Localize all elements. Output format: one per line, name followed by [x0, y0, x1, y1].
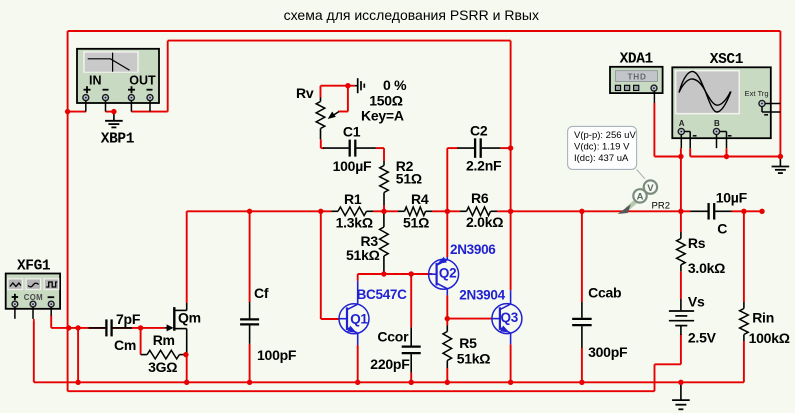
svg-text:300pF: 300pF [588, 344, 628, 360]
svg-text:Ccor: Ccor [377, 328, 409, 344]
svg-text:R6: R6 [471, 190, 489, 206]
svg-text:Key=A: Key=A [361, 107, 404, 123]
svg-text:1.3kΩ: 1.3kΩ [336, 215, 373, 231]
svg-text:2N3904: 2N3904 [459, 288, 505, 303]
svg-text:Rs: Rs [688, 235, 706, 251]
svg-text:100pF: 100pF [257, 347, 297, 363]
svg-text:2.2nF: 2.2nF [466, 157, 502, 173]
svg-text:Q3: Q3 [501, 310, 519, 325]
svg-text:51Ω: 51Ω [403, 214, 429, 230]
svg-text:51Ω: 51Ω [396, 171, 422, 187]
svg-text:C1: C1 [343, 124, 361, 140]
svg-text:схема для исследования PSRR и: схема для исследования PSRR и Rвых [284, 7, 539, 23]
svg-text:Cf: Cf [254, 285, 269, 301]
svg-text:R4: R4 [411, 191, 429, 207]
svg-text:Rv: Rv [296, 85, 314, 101]
svg-text:XFG1: XFG1 [17, 258, 51, 274]
svg-text:3GΩ: 3GΩ [148, 359, 177, 375]
svg-text:R5: R5 [459, 335, 477, 351]
svg-text:0 %: 0 % [383, 77, 407, 93]
svg-text:R1: R1 [344, 191, 362, 207]
svg-text:IN: IN [89, 73, 102, 87]
svg-text:PR2: PR2 [652, 200, 670, 211]
svg-text:Qm: Qm [178, 309, 201, 325]
svg-text:Q2: Q2 [439, 266, 456, 281]
svg-text:V(dc): 1.19 V: V(dc): 1.19 V [574, 142, 630, 153]
svg-text:51kΩ: 51kΩ [457, 351, 491, 367]
svg-text:Ccab: Ccab [588, 284, 621, 300]
svg-text:V(p-p): 256 uV: V(p-p): 256 uV [574, 130, 636, 141]
svg-text:XDA1: XDA1 [620, 52, 654, 68]
svg-text:V: V [647, 183, 654, 194]
svg-text:OUT: OUT [129, 73, 156, 87]
svg-text:C: C [717, 221, 727, 237]
svg-text:Vs: Vs [688, 293, 705, 309]
svg-text:2.0kΩ: 2.0kΩ [466, 214, 503, 230]
svg-text:Rin: Rin [752, 310, 774, 326]
svg-text:XBP1: XBP1 [101, 131, 135, 147]
svg-text:Q1: Q1 [350, 312, 368, 327]
svg-text:100kΩ: 100kΩ [749, 330, 790, 346]
svg-text:XSC1: XSC1 [710, 52, 744, 68]
svg-text:150Ω: 150Ω [369, 92, 403, 108]
svg-text:THD: THD [628, 72, 647, 81]
svg-text:B: B [714, 119, 720, 128]
svg-text:3.0kΩ: 3.0kΩ [688, 260, 725, 276]
svg-text:Ext Trg: Ext Trg [745, 89, 769, 98]
svg-text:C2: C2 [470, 123, 488, 139]
svg-text:A: A [679, 119, 685, 128]
svg-text:Cm: Cm [114, 337, 136, 353]
svg-text:2N3906: 2N3906 [450, 242, 496, 257]
svg-text:100µF: 100µF [333, 158, 372, 174]
svg-text:A: A [637, 192, 644, 203]
svg-text:7pF: 7pF [116, 311, 141, 327]
svg-text:10µF: 10µF [716, 190, 748, 206]
svg-text:2.5V: 2.5V [688, 330, 717, 346]
svg-text:51kΩ: 51kΩ [346, 247, 380, 263]
svg-text:I(dc): 437 uA: I(dc): 437 uA [574, 153, 629, 164]
svg-text:BC547C: BC547C [357, 287, 408, 302]
svg-text:220pF: 220pF [370, 356, 410, 372]
svg-text:Rm: Rm [153, 332, 175, 348]
